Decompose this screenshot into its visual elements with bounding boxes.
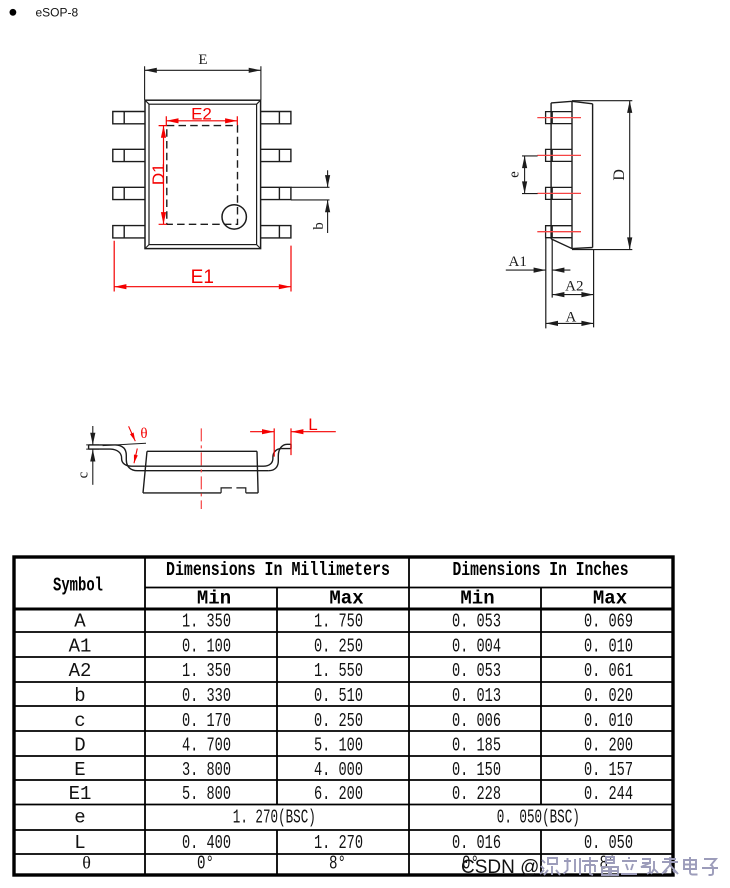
svg-text:4. 700: 4. 700: [182, 735, 231, 757]
table row D: [74, 735, 633, 757]
side pin 1: [546, 112, 572, 124]
dim A1 arrows: [506, 269, 546, 271]
svg-text:0. 330: 0. 330: [182, 685, 231, 707]
table row L: [74, 832, 633, 854]
row line A/A1: [14, 631, 673, 633]
dim A arrow line: [546, 322, 594, 324]
char zi: [702, 859, 718, 875]
char li: [621, 857, 637, 874]
dim D extension lines: [572, 101, 632, 250]
svg-text:0. 185: 0. 185: [452, 735, 501, 757]
svg-text:1. 270(BSC): 1. 270(BSC): [233, 807, 316, 829]
pin 4 left: [113, 226, 145, 238]
svg-text:5. 800: 5. 800: [182, 783, 231, 805]
right lead inner bend: [264, 449, 282, 467]
pin 3 left: [113, 187, 145, 199]
svg-text:0. 069: 0. 069: [584, 611, 633, 633]
left lead inner bend: [111, 449, 132, 466]
svg-text:5. 100: 5. 100: [314, 735, 363, 757]
body inner rect: [149, 104, 257, 244]
svg-text:D1: D1: [149, 163, 168, 185]
dim b extension lines: [291, 187, 330, 200]
table row b: [74, 685, 633, 707]
dim e arrow line: [524, 156, 526, 194]
svg-text:0. 157: 0. 157: [584, 759, 633, 781]
svg-text:Symbol: Symbol: [53, 575, 103, 597]
dim b arrows: [327, 170, 329, 187]
dim E1 extension lines: [114, 241, 291, 292]
pin 1 left: [113, 112, 145, 124]
svg-text:θ: θ: [82, 853, 91, 873]
svg-text:4. 000: 4. 000: [314, 759, 363, 781]
svg-text:L: L: [74, 832, 85, 854]
pin 7 right: [261, 149, 291, 161]
svg-text:L: L: [308, 415, 317, 434]
svg-text:c: c: [76, 471, 92, 478]
svg-text:0. 228: 0. 228: [452, 783, 501, 805]
column line symbol: [144, 557, 146, 875]
char dian: [684, 857, 698, 875]
svg-text:e: e: [74, 807, 85, 829]
header divider h1/h2: [145, 587, 673, 589]
svg-text:E1: E1: [69, 783, 92, 805]
svg-text:1. 270: 1. 270: [314, 832, 363, 854]
theta red arrow upper: [129, 426, 136, 441]
svg-text:0. 006: 0. 006: [452, 710, 501, 732]
exposed pad dashed rect: [167, 126, 238, 225]
char zhen: [564, 858, 581, 875]
pin 6 right: [261, 187, 291, 199]
lead plane top line: [132, 465, 264, 467]
dim c arrows: [92, 426, 94, 445]
dim D arrow line: [629, 101, 631, 250]
char tai: [662, 857, 678, 874]
svg-text:0. 053: 0. 053: [452, 660, 501, 682]
svg-text:6. 200: 6. 200: [314, 783, 363, 805]
bullet: [10, 9, 17, 16]
svg-text:0. 150: 0. 150: [452, 759, 501, 781]
svg-text:A1: A1: [509, 254, 527, 270]
svg-text:0. 170: 0. 170: [182, 710, 231, 732]
bottom lead edge lines: [546, 238, 594, 329]
watermark CSDN text: [461, 857, 539, 878]
svg-text:0. 050: 0. 050: [584, 832, 633, 854]
svg-text:E2: E2: [191, 105, 212, 124]
svg-text:b: b: [311, 222, 327, 230]
side pin 4: [546, 226, 572, 238]
svg-text:E: E: [74, 759, 85, 781]
dim L arrows: [250, 431, 274, 433]
column line mm/inches: [408, 557, 410, 875]
dim E1 arrow line: [114, 286, 291, 288]
side pin 3: [546, 187, 572, 199]
svg-text:0. 250: 0. 250: [314, 710, 363, 732]
svg-text:0. 100: 0. 100: [182, 635, 231, 657]
char shen: [540, 858, 560, 875]
svg-text:0. 020: 0. 020: [584, 685, 633, 707]
svg-text:D: D: [74, 735, 85, 757]
row line D/E: [14, 755, 673, 757]
svg-text:1. 750: 1. 750: [314, 611, 363, 633]
row line A2/b: [14, 681, 673, 683]
dim E extension lines: [145, 66, 261, 100]
svg-text:8°: 8°: [329, 853, 346, 875]
table outer border: [14, 557, 673, 875]
svg-text:1. 350: 1. 350: [182, 660, 231, 682]
dim E2 arrow line: [166, 120, 237, 122]
svg-text:A2: A2: [69, 660, 92, 682]
pin centerlines red: [537, 118, 581, 232]
svg-text:0. 016: 0. 016: [452, 832, 501, 854]
lead plane bottom line: [138, 470, 269, 472]
svg-text:A2: A2: [565, 279, 583, 295]
svg-text:Dimensions In Millimeters: Dimensions In Millimeters: [166, 559, 390, 581]
table row E1: [69, 783, 633, 805]
dim E arrow line: [145, 69, 261, 71]
svg-text:0. 010: 0. 010: [584, 710, 633, 732]
centerline red dash-dot: [200, 428, 202, 509]
svg-text:Min: Min: [197, 588, 231, 610]
right lead outer bend: [269, 444, 287, 470]
dim L vertical extensions red: [274, 428, 291, 456]
left lead outer bend: [115, 445, 137, 471]
svg-text:Min: Min: [460, 588, 494, 610]
svg-text:0. 061: 0. 061: [584, 660, 633, 682]
theta red arrow lower: [134, 449, 137, 464]
right lead foot: [281, 444, 291, 448]
svg-text:c: c: [74, 710, 85, 732]
side pin 2: [546, 149, 572, 161]
chamfer corners: [145, 100, 261, 248]
svg-text:A: A: [74, 611, 86, 633]
table row A1: [69, 635, 633, 657]
row line A1/A2: [14, 656, 673, 658]
theta reference line: [103, 443, 146, 445]
svg-text:θ: θ: [140, 426, 147, 442]
package body outline: [143, 451, 258, 493]
svg-text:A1: A1: [69, 635, 92, 657]
svg-text:CSDN @: CSDN @: [461, 857, 539, 878]
row line c/D: [14, 730, 673, 732]
table row c: [74, 710, 633, 732]
svg-text:E: E: [198, 52, 207, 68]
svg-text:e: e: [507, 171, 523, 178]
char shi: [582, 857, 598, 875]
column line min/max inches (skips e row): [540, 588, 542, 876]
svg-text:1. 350: 1. 350: [182, 611, 231, 633]
dim e ticks: [522, 156, 538, 194]
row line e/L: [14, 829, 673, 831]
svg-text:0°: 0°: [197, 853, 214, 875]
svg-text:0. 010: 0. 010: [584, 635, 633, 657]
side body outline: [551, 101, 593, 248]
svg-text:0. 250: 0. 250: [314, 635, 363, 657]
dim D1 arrow line: [163, 126, 165, 225]
watermark chinese glyphs (approximated strokes): [540, 857, 718, 875]
pin 8 right: [261, 112, 291, 124]
svg-text:E1: E1: [191, 267, 214, 288]
dim A2 arrow line: [552, 294, 593, 296]
svg-text:1. 550: 1. 550: [314, 660, 363, 682]
svg-text:3. 800: 3. 800: [182, 759, 231, 781]
svg-text:0. 244: 0. 244: [584, 783, 633, 805]
svg-text:Dimensions In Inches: Dimensions In Inches: [453, 559, 629, 581]
header bottom thick line: [14, 608, 673, 611]
column line min/max mm (skips e row): [276, 588, 278, 876]
pin 5 right: [261, 226, 291, 238]
row line b/c: [14, 705, 673, 707]
svg-text:0. 510: 0. 510: [314, 685, 363, 707]
svg-text:Max: Max: [593, 588, 627, 610]
char jing: [602, 857, 618, 875]
left lead foot: [89, 445, 116, 449]
body bottom notch: [221, 488, 246, 493]
table row A2: [69, 660, 633, 682]
svg-text:eSOP-8: eSOP-8: [36, 6, 79, 20]
body outer rect: [145, 100, 261, 248]
table row theta: [82, 853, 616, 875]
char hong: [641, 859, 658, 874]
svg-text:D: D: [611, 169, 628, 181]
svg-text:Max: Max: [329, 588, 363, 610]
svg-text:A: A: [565, 309, 576, 325]
pin1 marker circle: [222, 205, 246, 229]
svg-text:0. 053: 0. 053: [452, 611, 501, 633]
dim D1 ticks: [159, 126, 167, 225]
svg-text:0. 050(BSC): 0. 050(BSC): [497, 807, 580, 829]
svg-text:0. 004: 0. 004: [452, 635, 501, 657]
table row E: [74, 759, 633, 781]
svg-text:0. 200: 0. 200: [584, 735, 633, 757]
svg-text:0. 013: 0. 013: [452, 685, 501, 707]
svg-text:0. 400: 0. 400: [182, 832, 231, 854]
row line L/theta: [14, 853, 673, 855]
svg-text:b: b: [74, 685, 85, 707]
table row A: [74, 611, 633, 633]
row line E/E1: [14, 779, 673, 781]
pin 2 left: [113, 149, 145, 161]
dim E2 ticks: [166, 116, 237, 125]
row line E1/e: [14, 804, 673, 806]
dim c ticks: [86, 445, 99, 449]
table row e: [74, 807, 580, 829]
